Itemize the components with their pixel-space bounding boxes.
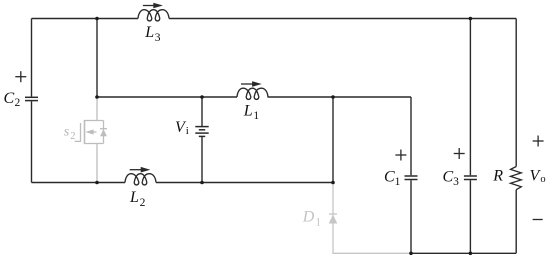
MOSFET s2 (inactive, gray) — [75, 98, 104, 182]
resistor R — [511, 167, 522, 190]
battery Vi — [195, 127, 208, 137]
wire second horizontal right — [268, 96, 412, 98]
svg-text:1: 1 — [315, 216, 321, 228]
svg-text:C: C — [4, 90, 15, 107]
wire bottom-right segment — [411, 252, 516, 254]
current arrow of L1 — [241, 81, 262, 87]
svg-text:i: i — [186, 125, 189, 137]
current arrow of L2 — [130, 167, 151, 173]
node top-middle — [95, 17, 99, 21]
capacitor C2 — [25, 97, 38, 100]
node top C3 — [469, 17, 473, 21]
svg-text:C: C — [443, 168, 454, 185]
body diode branch — [103, 121, 105, 144]
svg-text:C: C — [384, 168, 395, 185]
plus sign C2 — [15, 71, 26, 82]
node mid-left — [95, 95, 99, 99]
node C3 bottom — [469, 252, 473, 256]
wire C3 branch vertical — [469, 19, 471, 254]
wire Vi branch — [201, 97, 203, 183]
plus sign C3 — [454, 148, 465, 159]
wire top-right segment — [169, 18, 516, 20]
svg-text:2: 2 — [15, 97, 21, 109]
inductor L3 — [138, 10, 169, 21]
wire C1 branch vertical — [410, 97, 412, 253]
wire middle vertical upper — [96, 19, 98, 98]
wire bottom-mid segment — [156, 182, 333, 184]
wire right side (R branch) — [515, 19, 517, 254]
plus sign C1 — [395, 150, 406, 161]
svg-text:s: s — [64, 125, 70, 140]
svg-text:3: 3 — [155, 32, 161, 44]
node C1 bottom — [409, 252, 413, 256]
current arrow of L3 — [143, 3, 163, 9]
node mid-right — [331, 95, 335, 99]
channel bar — [84, 120, 86, 144]
node Vi bottom — [200, 181, 204, 185]
plus sign Vo — [533, 136, 544, 147]
source stub — [85, 143, 104, 145]
body diode of s2 — [100, 129, 107, 137]
wire second horizontal left — [97, 96, 237, 98]
capacitor C3 — [464, 176, 477, 180]
svg-text:D: D — [302, 209, 315, 226]
node bottom s2 — [95, 181, 99, 185]
capacitor C1 — [405, 176, 418, 180]
diode D1 (inactive, gray) with its branch wire — [333, 184, 411, 253]
svg-text:2: 2 — [140, 197, 146, 209]
svg-text:3: 3 — [453, 176, 459, 188]
drain stub — [85, 120, 104, 122]
wire top-left segment — [32, 18, 139, 20]
svg-text:L: L — [243, 102, 253, 119]
svg-text:2: 2 — [70, 131, 75, 142]
gate lead — [75, 140, 81, 142]
svg-text:o: o — [540, 174, 545, 185]
source lead — [96, 144, 98, 183]
drain lead — [96, 98, 98, 121]
svg-text:L: L — [144, 24, 154, 41]
svg-text:L: L — [129, 189, 139, 206]
minus sign Vo — [533, 219, 543, 221]
bulk arrow line — [93, 131, 97, 133]
gate bar — [80, 123, 82, 142]
svg-text:1: 1 — [253, 110, 259, 122]
node Vi top — [200, 95, 204, 99]
svg-text:1: 1 — [395, 176, 401, 188]
wire bottom-left segment — [32, 182, 126, 184]
svg-text:R: R — [492, 168, 503, 185]
node D1 top — [331, 181, 335, 185]
inductor L1 — [237, 88, 268, 99]
inductor L2 — [125, 174, 156, 185]
bulk arrow head — [85, 129, 93, 134]
wire node vertical at x=333 — [332, 97, 334, 183]
wire left side (C2 branch) — [31, 19, 33, 183]
